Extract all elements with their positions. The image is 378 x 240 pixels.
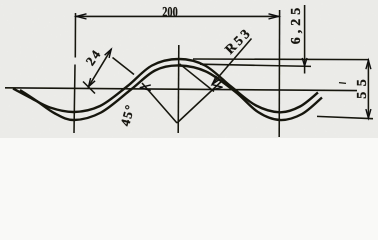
svg-text:55: 55 bbox=[355, 74, 370, 99]
left trough centerline / extension bbox=[74, 13, 76, 133]
construction 45deg line right of crest bbox=[180, 64, 215, 92]
construction V right leg bbox=[177, 79, 224, 123]
svg-text:200: 200 bbox=[162, 5, 178, 21]
dimension 6,25 line bbox=[304, 5, 306, 74]
sheet upper surface bbox=[13, 59, 318, 112]
dimension 55 extension bottom bbox=[317, 116, 373, 118]
dimension 24 extension lower bbox=[83, 82, 95, 94]
sheet lower surface bbox=[20, 65, 322, 120]
extension lower (6.25) bbox=[200, 64, 311, 66]
arrow on axis left bbox=[140, 85, 151, 91]
extension upper (crest level) bbox=[193, 58, 369, 61]
dimension 24 line bbox=[88, 49, 111, 87]
dimension 24 extension upper bbox=[113, 58, 135, 75]
leader R53 bbox=[212, 39, 252, 85]
arrow on axis right bbox=[212, 84, 223, 90]
construction 45deg line left bbox=[142, 83, 177, 123]
axis centerline bbox=[5, 88, 357, 91]
tick left of 55 bbox=[339, 82, 346, 85]
dimension 200 line bbox=[76, 15, 279, 17]
right trough centerline / extension bbox=[278, 10, 280, 137]
dimension 55 line bbox=[367, 60, 369, 119]
crest centerline bbox=[177, 45, 180, 133]
svg-text:6,25: 6,25 bbox=[289, 4, 304, 45]
